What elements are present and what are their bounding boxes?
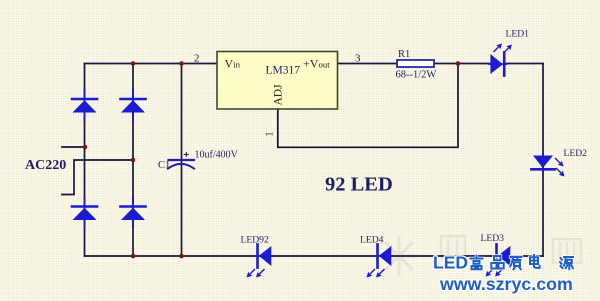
svg-text:LED1: LED1 — [506, 29, 530, 40]
svg-text:LED2: LED2 — [564, 148, 588, 159]
LED92 — [244, 244, 273, 279]
LED2 — [531, 154, 566, 179]
svg-text:LED3: LED3 — [481, 233, 505, 244]
bridge diode top-right — [121, 90, 146, 120]
branding glyph pin — [491, 256, 503, 269]
bridge diode bottom-right — [121, 198, 146, 228]
svg-text:www.szryc.com: www.szryc.com — [439, 274, 573, 294]
svg-text:Vin: Vin — [225, 57, 241, 71]
wire: LM317 Vout to R1 — [338, 63, 398, 65]
LED1 — [489, 41, 514, 75]
branding glyph gao — [471, 256, 483, 270]
wire: bridge column 2 vertical — [132, 64, 134, 257]
wire: capacitor column vertical — [181, 64, 183, 257]
op-amp regulator U1 LM317 box — [217, 52, 338, 110]
svg-text:2: 2 — [194, 53, 200, 65]
wire: bottom rail — [85, 255, 544, 257]
LED4 — [364, 244, 393, 279]
watermark glyph box — [441, 236, 581, 263]
junction dot top rail / column2 — [131, 61, 136, 66]
svg-text:+Vout: +Vout — [303, 57, 330, 71]
svg-text:LM317: LM317 — [266, 65, 301, 77]
wire: right vertical rail — [542, 64, 544, 257]
bridge diode top-left — [72, 90, 97, 120]
watermark starburst — [381, 238, 417, 274]
junction dot bottom rail / column2 — [131, 254, 136, 259]
svg-text:ADJ: ADJ — [273, 84, 285, 106]
wire: ADJ feedback path — [278, 64, 458, 148]
svg-text:68--1/2W: 68--1/2W — [396, 70, 437, 81]
capacitor C1 — [168, 153, 194, 169]
svg-text:LED: LED — [433, 253, 468, 273]
wire: LED1 to right corner — [506, 63, 543, 65]
svg-text:LED4: LED4 — [360, 235, 384, 246]
svg-text:C1: C1 — [158, 160, 170, 171]
svg-text:10uf/400V: 10uf/400V — [195, 150, 239, 161]
svg-text:AC220: AC220 — [25, 158, 66, 173]
resistor R1 — [397, 60, 434, 67]
wire: AC source lower stub L-shape — [62, 160, 133, 195]
junction dot AC stub / column2 — [131, 158, 136, 163]
branding glyph yuan — [560, 257, 573, 269]
branding glyph zhi — [510, 257, 522, 269]
junction dot top rail / cap column — [179, 61, 184, 66]
branding glyph dian — [530, 255, 540, 268]
svg-text:R1: R1 — [398, 49, 410, 60]
wire: R1 to LED1 — [434, 63, 491, 65]
svg-text:LED92: LED92 — [241, 235, 269, 246]
svg-text:92 LED: 92 LED — [325, 174, 393, 196]
wire: left vertical rail — [84, 64, 86, 257]
LED3 — [483, 244, 512, 278]
svg-text:3: 3 — [355, 53, 361, 65]
wire: AC source upper stub — [62, 146, 85, 148]
junction dot AC stub / column1 — [83, 145, 88, 150]
svg-text:1: 1 — [265, 132, 276, 137]
junction dot R1 out / ADJ feedback — [456, 61, 461, 66]
junction dot bottom rail / cap column — [179, 254, 184, 259]
wire: top rail from left corner to LM317 Vin — [85, 63, 218, 65]
bridge diode bottom-left — [72, 198, 97, 228]
